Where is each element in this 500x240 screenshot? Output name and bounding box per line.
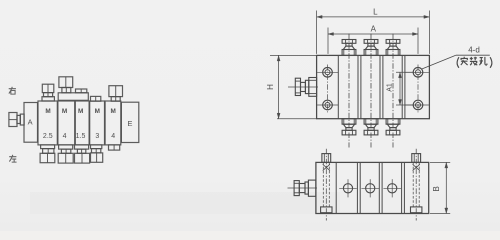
block M4 — [90, 101, 105, 145]
center line valve 1 — [348, 34, 350, 148]
side connector (plan view) — [288, 180, 318, 196]
bottom fitting M1 — [40, 145, 55, 163]
side connector (front view) — [288, 78, 318, 97]
port valve 3 (plan) — [383, 179, 401, 197]
svg-text:4: 4 — [111, 133, 115, 140]
dimension A1 — [386, 72, 413, 105]
top fitting M3 — [76, 89, 87, 93]
svg-text:E: E — [128, 119, 133, 128]
hole center lines right plate — [405, 65, 429, 114]
section joint lines — [338, 55, 405, 118]
top fitting M1 — [42, 84, 54, 101]
svg-text:2.5: 2.5 — [43, 133, 53, 140]
block M3 — [75, 101, 89, 145]
manifold body (front view) — [317, 55, 430, 118]
dimension A — [328, 25, 418, 54]
svg-text:H: H — [266, 84, 275, 90]
mounting hole bottom-left — [323, 100, 333, 110]
top fitting valve 3 — [386, 40, 400, 56]
svg-text:M: M — [95, 108, 100, 115]
svg-text:1.5: 1.5 — [76, 133, 86, 140]
block M5 — [105, 101, 121, 145]
block A — [24, 103, 38, 143]
port valve 1 (plan) — [339, 179, 357, 197]
svg-text:4-d: 4-d — [468, 45, 480, 54]
shared cover plate M2-M3 — [58, 93, 88, 101]
block M2 — [58, 101, 75, 145]
callout 4-d (mounting holes) — [422, 45, 490, 69]
bottom fitting M3 — [75, 145, 90, 163]
bolt right (plan) — [411, 149, 422, 221]
dimension L — [317, 8, 430, 54]
dimension B — [430, 162, 450, 213]
top fitting M5 — [109, 86, 123, 102]
bottom fitting M5 — [109, 145, 120, 150]
svg-text:4: 4 — [63, 133, 67, 140]
bolt left (plan) — [321, 149, 332, 221]
mounting hole bottom-right — [413, 100, 423, 110]
center line valve 2 — [370, 34, 372, 148]
label left (zuo) — [9, 155, 16, 162]
svg-text:M: M — [111, 108, 116, 115]
dimension H — [266, 55, 317, 118]
svg-text:3: 3 — [95, 133, 99, 140]
svg-text:A1: A1 — [386, 83, 393, 92]
section joint lines (plan) — [336, 162, 404, 213]
callout text (mounting hole) — [457, 57, 492, 68]
block E — [121, 102, 138, 142]
bottom fitting M2 — [58, 145, 73, 163]
bottom fitting M4 — [91, 145, 103, 162]
svg-text:M: M — [62, 108, 67, 115]
label right (you) — [9, 87, 16, 94]
bottom fitting valve 3 — [386, 119, 400, 135]
inlet fitting on block A — [9, 113, 24, 127]
mounting hole top-right — [413, 68, 423, 78]
port valve 2 (plan) — [361, 179, 379, 197]
svg-text:A: A — [371, 25, 377, 34]
top fitting M2 — [59, 77, 73, 93]
top fitting valve 2 — [364, 40, 378, 56]
svg-text:A: A — [28, 118, 33, 127]
bottom fitting valve 1 — [342, 119, 356, 135]
svg-text:L: L — [373, 8, 378, 17]
svg-text:M: M — [45, 108, 50, 115]
hole center lines left plate — [317, 65, 338, 114]
center line valve 3 — [392, 34, 394, 148]
bottom fitting valve 2 — [364, 119, 378, 135]
svg-text:B: B — [432, 186, 441, 191]
manifold body (plan view) — [316, 162, 429, 213]
top fitting valve 1 — [342, 40, 356, 56]
mounting hole top-left — [323, 68, 333, 78]
top fitting M4 — [91, 96, 101, 101]
block M1 — [38, 101, 57, 145]
svg-text:M: M — [78, 108, 83, 115]
